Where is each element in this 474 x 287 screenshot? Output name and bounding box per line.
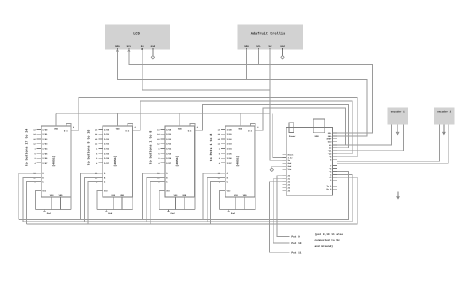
svg-text:5v: 5v xyxy=(141,45,145,48)
svg-text:to buttons 9 to 16: to buttons 9 to 16 xyxy=(86,130,90,166)
svg-text:I/O4: I/O4 xyxy=(42,147,48,150)
svg-text:I/O6: I/O6 xyxy=(42,157,48,160)
svg-text:I/O6: I/O6 xyxy=(166,157,172,160)
svg-text:I/O7: I/O7 xyxy=(166,162,172,165)
svg-text:I/O3: I/O3 xyxy=(227,143,233,146)
svg-text:Pot 11: Pot 11 xyxy=(291,251,301,254)
svg-text:I/O4: I/O4 xyxy=(166,147,172,150)
svg-text:Gnd: Gnd xyxy=(280,45,285,48)
svg-text:encoder 1: encoder 1 xyxy=(391,111,405,114)
svg-text:encoder 2: encoder 2 xyxy=(437,111,451,114)
svg-text:Gnd: Gnd xyxy=(151,45,156,48)
svg-text:I/O1: I/O1 xyxy=(104,133,110,136)
svg-text:Pot 9: Pot 9 xyxy=(291,236,300,239)
svg-text:USB: USB xyxy=(315,135,320,138)
svg-text:to buttons 17 to 24: to buttons 17 to 24 xyxy=(25,129,29,167)
svg-text:I/O2: I/O2 xyxy=(104,138,110,141)
svg-text:SCL: SCL xyxy=(256,45,261,48)
svg-text:I/O1: I/O1 xyxy=(42,133,48,136)
svg-text:Adafruit trellis: Adafruit trellis xyxy=(251,32,286,37)
svg-text:SCL: SCL xyxy=(127,45,132,48)
svg-text:[4051]: [4051] xyxy=(236,155,240,166)
svg-text:SDA: SDA xyxy=(115,45,120,48)
svg-text:I/O7: I/O7 xyxy=(227,162,233,165)
svg-text:I/O3: I/O3 xyxy=(166,143,172,146)
svg-text:I/O0: I/O0 xyxy=(227,128,233,131)
svg-text:I/O5: I/O5 xyxy=(227,152,233,155)
svg-text:LCD: LCD xyxy=(133,32,140,37)
svg-text:I/O5: I/O5 xyxy=(104,152,110,155)
svg-text:Gnd: Gnd xyxy=(171,212,176,215)
svg-text:I/O0: I/O0 xyxy=(166,128,172,131)
svg-text:to buttons 1 to 8: to buttons 1 to 8 xyxy=(149,131,153,165)
svg-text:Rx 0: Rx 0 xyxy=(326,188,332,191)
svg-text:I/O3: I/O3 xyxy=(104,143,110,146)
svg-text:connected to 5v: connected to 5v xyxy=(315,238,340,242)
svg-text:SDA: SDA xyxy=(244,45,249,48)
svg-text:to Pots 1 to 8: to Pots 1 to 8 xyxy=(209,134,213,162)
svg-text:I/O5: I/O5 xyxy=(166,152,172,155)
svg-text:I/O7: I/O7 xyxy=(42,162,48,165)
svg-text:I/O3: I/O3 xyxy=(42,143,48,146)
svg-text:I/O1: I/O1 xyxy=(227,133,233,136)
svg-text:I/O7: I/O7 xyxy=(104,162,110,165)
svg-text:I/O6: I/O6 xyxy=(227,157,233,160)
svg-text:[4051]: [4051] xyxy=(51,155,55,166)
svg-text:I/O5: I/O5 xyxy=(42,152,48,155)
svg-text:and Ground): and Ground) xyxy=(315,244,334,248)
svg-text:Gnd: Gnd xyxy=(47,212,52,215)
svg-text:(pot 9,10 11 also: (pot 9,10 11 also xyxy=(315,232,344,236)
svg-text:Gnd: Gnd xyxy=(108,212,113,215)
svg-text:I/O6: I/O6 xyxy=(104,157,110,160)
svg-text:I/O2: I/O2 xyxy=(166,138,172,141)
svg-text:I/O0: I/O0 xyxy=(104,128,110,131)
svg-text:Pot 10: Pot 10 xyxy=(291,242,301,245)
svg-text:[4051]: [4051] xyxy=(113,155,117,166)
svg-text:I/O0: I/O0 xyxy=(42,128,48,131)
svg-text:5v: 5v xyxy=(268,45,272,48)
svg-text:I/O4: I/O4 xyxy=(227,147,233,150)
svg-text:Power: Power xyxy=(289,135,296,138)
svg-text:I/O2: I/O2 xyxy=(42,138,48,141)
svg-text:I/O2: I/O2 xyxy=(227,138,233,141)
svg-text:Gnd: Gnd xyxy=(231,212,236,215)
svg-text:I/O1: I/O1 xyxy=(166,133,172,136)
svg-text:[4051]: [4051] xyxy=(175,155,179,166)
svg-text:I/O4: I/O4 xyxy=(104,147,110,150)
